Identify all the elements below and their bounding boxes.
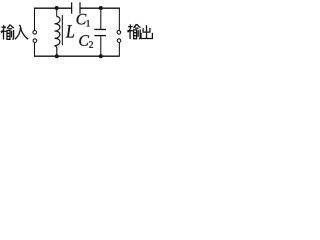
wire right vertical lower — [118, 43, 120, 57]
inductor core line — [61, 15, 63, 45]
wire left vertical upper — [34, 8, 36, 31]
junction dot inductor bottom — [55, 54, 59, 58]
wire C2 branch upper — [100, 8, 102, 29]
node output bottom terminal — [117, 39, 121, 43]
wire top rail right segment — [80, 7, 120, 9]
label C1 — [77, 14, 87, 25]
junction dot C2 top — [99, 6, 103, 10]
text 输 (output) — [127, 24, 140, 39]
wire left vertical lower — [34, 43, 36, 57]
capacitor C2 bottom plate — [94, 35, 106, 37]
node input top terminal — [33, 31, 37, 35]
capacitor C1 left plate — [71, 2, 73, 13]
node output top terminal — [117, 31, 121, 35]
text 入 (input) — [15, 25, 28, 40]
wire top rail left segment — [34, 7, 72, 9]
junction dot inductor top — [55, 6, 59, 10]
wire bottom rail — [34, 55, 120, 57]
capacitor C2 top plate — [94, 28, 106, 30]
node input bottom terminal — [33, 39, 37, 43]
text 出 (output) — [141, 25, 152, 38]
text 输 (input) — [1, 25, 14, 40]
label C2 — [79, 35, 89, 46]
inductor L coil — [55, 17, 61, 57]
wire inductor branch top — [56, 8, 58, 17]
wire right vertical upper — [118, 8, 120, 31]
junction dot C2 bottom — [99, 54, 103, 58]
capacitor C1 right plate — [79, 2, 81, 13]
wire C2 branch lower — [100, 36, 102, 56]
label L — [66, 25, 74, 37]
